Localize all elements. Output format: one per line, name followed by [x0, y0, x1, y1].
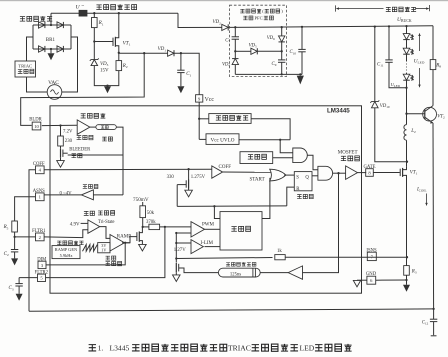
capacitor C11 [385, 59, 392, 61]
svg-text:15V: 15V [100, 69, 109, 74]
capacitor C9 [278, 59, 285, 61]
svg-text:1.: 1. [98, 344, 104, 353]
svg-text:MOSFET: MOSFET [338, 150, 358, 155]
node VT2 base tap [405, 113, 407, 115]
wire VD6 stem [281, 27, 283, 36]
ground blanking [173, 275, 181, 282]
wire ramp out to gate [125, 237, 137, 243]
wire Vcc into IC [198, 102, 200, 139]
wire DIM internal [46, 243, 125, 265]
terminal C12 [431, 335, 437, 337]
label buck-converter (Chinese) [386, 7, 391, 11]
resistor 1k [275, 255, 285, 260]
wire bridge-left to TRIAC [27, 37, 34, 61]
node PFC right top [281, 26, 283, 28]
wire rail step-down [178, 13, 222, 27]
svg-text:I-LIM: I-LIM [201, 241, 214, 246]
wire VD3 branch [93, 42, 95, 60]
wire VD4 bottom [234, 65, 236, 75]
buffer MOSFET driver [346, 166, 358, 180]
label ramp-generator (Chinese) [57, 241, 61, 245]
comparator PWM [191, 222, 205, 237]
node GND junction [405, 279, 407, 281]
node ramp out [124, 242, 126, 244]
svg-text:0 ~4V: 0 ~4V [60, 191, 73, 196]
wire top rail [51, 12, 79, 14]
wire C10 bottom [301, 52, 303, 75]
IC LM3445 boundary [50, 106, 362, 293]
wire to FLTR1 [15, 236, 36, 238]
svg-text:VD3: VD3 [100, 62, 109, 67]
svg-text:330: 330 [167, 175, 175, 180]
svg-text:VD6: VD6 [267, 36, 275, 41]
wire ASNS to buffer [44, 194, 81, 196]
wire into controller topleft [214, 206, 220, 218]
ground dim-switch [139, 244, 147, 251]
wire C1 to gnd [180, 73, 182, 87]
caption figure 1 [88, 345, 96, 351]
led LED1 [403, 34, 410, 40]
wire TRIAC to VAC [27, 77, 48, 92]
svg-text:10: 10 [34, 124, 39, 129]
svg-text:L2: L2 [410, 129, 416, 134]
PFC dashed box [230, 5, 287, 76]
transistor dim-switch [138, 231, 140, 241]
wire COFF pulldown [188, 169, 190, 179]
ground VD3/R2 [104, 86, 111, 93]
node COFF pulldown tap [187, 168, 189, 170]
wire I-LIM+ stub [176, 242, 191, 244]
svg-text:C12: C12 [422, 320, 429, 325]
wire VT2 base [407, 113, 425, 115]
node PFC right mid [281, 50, 283, 52]
svg-text:RAMP GEN: RAMP GEN [55, 247, 78, 252]
wire FLTR2 internal [46, 227, 165, 278]
svg-text:VT1: VT1 [410, 171, 418, 176]
svg-text:TRIAC: TRIAC [18, 64, 32, 69]
diode BR1-D4 [57, 46, 63, 52]
node I-LIM+ tap [175, 242, 177, 244]
label dim (Chinese) [84, 211, 89, 215]
svg-text:Vcc UVLO: Vcc UVLO [210, 137, 234, 143]
node ISNS junction [406, 256, 408, 258]
label bridge-rectifier (Chinese) [20, 17, 25, 21]
label line-voltage-sense (Chinese) [96, 5, 102, 10]
wire C1 stem [180, 53, 182, 70]
svg-text:L3445: L3445 [110, 344, 130, 353]
wire blanking gnd stub [175, 272, 177, 275]
wire control net [177, 205, 287, 208]
capacitor C10 [298, 48, 305, 50]
dim arrow U LED down [419, 68, 421, 87]
svg-text:LM3445: LM3445 [327, 108, 350, 115]
wire latch Q to AND2 [312, 175, 318, 177]
svg-text:FLTR2: FLTR2 [35, 270, 49, 275]
transistor blanking switch [175, 263, 177, 272]
wire regulator out [251, 119, 290, 140]
label thermal-shutdown (Chinese) [248, 155, 253, 159]
svg-text:Tri-State: Tri-State [98, 220, 115, 225]
pin Vcc 9 [196, 95, 203, 102]
node VT1 drain tap [118, 12, 120, 14]
svg-text:4.9V: 4.9V [70, 222, 80, 227]
block Vcc UVLO [206, 134, 239, 145]
node VT1-gate [93, 40, 95, 42]
wire ramp comp out [122, 242, 130, 244]
wire to UVLO [199, 138, 206, 140]
wire latch R in [287, 187, 295, 206]
block internal regulator [209, 114, 251, 124]
node gate-drive tap [337, 172, 339, 174]
ground bleeder [57, 161, 65, 168]
ground GND pin [353, 280, 360, 286]
ground R3 [403, 285, 410, 292]
svg-text:Vcc: Vcc [205, 97, 215, 103]
svg-text:R3: R3 [411, 269, 417, 274]
zener VD3 [91, 60, 98, 66]
node PFC left top [234, 26, 236, 28]
node control net tap [213, 205, 215, 207]
led LED3 [403, 74, 410, 80]
resistor R3 [404, 266, 410, 276]
wire OR out to latch S [284, 174, 294, 176]
wire PWM- stub [176, 232, 191, 234]
label internal-regulator (Chinese) [216, 116, 221, 120]
node bridge+ top [50, 24, 52, 26]
node C10 top [301, 26, 303, 28]
label angle-detect (Chinese) [81, 114, 86, 118]
svg-text:START: START [250, 177, 265, 182]
svg-text:50k: 50k [147, 211, 155, 216]
wire pill to bleeder gate [116, 127, 123, 195]
inductor L2 [404, 125, 407, 141]
svg-text:1V: 1V [101, 248, 106, 253]
wire main rail [228, 26, 433, 28]
wire PFC bottom [235, 73, 302, 75]
svg-text:1.275V: 1.275V [191, 175, 206, 180]
diode BR1-D3 [39, 46, 45, 52]
node VD10 join [406, 161, 408, 163]
label PFC line1 (Chinese) [240, 9, 244, 13]
transistor bleeder switch [60, 149, 62, 158]
wire VT2 emitter down [432, 123, 435, 309]
svg-text:PFC: PFC [255, 16, 263, 21]
label PFC line2 (Chinese) [243, 16, 247, 20]
wire into AND1 top [280, 140, 293, 153]
wire COFF mosfet gnd [188, 189, 190, 191]
node dots [406, 63, 407, 64]
wire to regulator [199, 118, 209, 120]
wire R2 top [118, 53, 120, 61]
svg-text:BLEEDER: BLEEDER [69, 148, 91, 153]
node Vcc split [198, 118, 200, 120]
wire R1 top [93, 13, 95, 17]
wire AND2 out [333, 172, 346, 174]
wire bleeder gnd stub [60, 158, 62, 161]
wire buffer out [100, 227, 110, 239]
wire bleeder mosfet top [60, 146, 62, 149]
ground COFF discharge [185, 190, 193, 197]
wire C11 stem [388, 26, 390, 60]
wire LED2 tail [406, 54, 408, 61]
wire VD5 right [257, 50, 281, 52]
node R1 tap [93, 12, 95, 14]
wire discharge gate net [176, 185, 178, 207]
wire driver out to GATE [358, 172, 367, 174]
wire R1 bottom [93, 28, 95, 42]
node UVLO/reg join [279, 139, 281, 141]
waveform sawtooth [83, 245, 98, 252]
label driver (Chinese) [341, 156, 346, 160]
capacitor C1 [177, 69, 184, 71]
label buffer (Chinese) [83, 185, 87, 189]
node gnd junction [106, 84, 108, 86]
wire LED3 head [406, 73, 408, 75]
label rising-edge-filter (Chinese) [226, 263, 230, 266]
wire GND to R3 node [376, 279, 408, 281]
dim arrow left tick [335, 5, 337, 11]
svg-text:VD2: VD2 [213, 20, 222, 25]
wire C3 gnd [18, 286, 20, 294]
svg-text:C11: C11 [377, 62, 384, 67]
svg-text:RAMP: RAMP [117, 235, 131, 240]
transistor VT2 [423, 107, 437, 121]
wire COFF internal [44, 168, 212, 171]
svg-text:C1: C1 [186, 72, 191, 77]
wire inverter to filter [260, 272, 288, 274]
svg-text:VT2: VT2 [437, 114, 445, 119]
wire 750mV stem [142, 202, 144, 206]
comparator angle-detect [77, 120, 90, 134]
wire sense vertical [175, 233, 177, 263]
svg-text:1k: 1k [277, 249, 282, 254]
svg-text:VD10: VD10 [380, 104, 390, 109]
svg-text:C7: C7 [225, 39, 230, 44]
wire VD1 to Vcc corner [174, 53, 199, 94]
capacitor C12 [430, 318, 437, 320]
node bleeder tap [59, 124, 61, 126]
wire LED1-2 [406, 40, 408, 48]
wire C9 bottom [281, 62, 283, 74]
node PFC bottom [281, 73, 283, 75]
svg-text:R2: R2 [122, 64, 128, 69]
label bleed (Chinese) [71, 154, 76, 158]
node PFC left mid [234, 50, 236, 52]
resistor R8 [430, 60, 436, 70]
block ramp thresholds [98, 243, 110, 253]
wire PWM out [205, 228, 221, 230]
node FLTR1 ext [13, 236, 15, 238]
block thermal shutdown [240, 152, 273, 164]
label comparator (Chinese) [77, 136, 82, 140]
wire VD5 left [235, 50, 251, 52]
buffer ASNS [81, 190, 93, 200]
wire C7 to node [234, 39, 236, 58]
wire R3 bottom [406, 275, 408, 285]
wire VAC to bridge-right [62, 37, 78, 92]
wire buffer input [93, 194, 123, 196]
ground C3 [16, 294, 23, 301]
wire LED3 tail [406, 80, 408, 87]
node C1 tap [180, 52, 182, 54]
node sense tap [175, 257, 177, 259]
wire C10 stem [301, 27, 303, 50]
wire VD6 to C9 [281, 42, 283, 60]
wire C2 gnd [14, 252, 16, 259]
wire gate feedback [303, 173, 339, 272]
wire bleeder sense (long) [21, 53, 145, 125]
wire ISNS sense [176, 258, 272, 259]
comparator I-LIM [191, 240, 203, 254]
wire bleeder res [60, 126, 62, 137]
svg-text:VD1: VD1 [158, 47, 167, 52]
block controller [220, 212, 262, 250]
gate AND2 [318, 166, 333, 180]
svg-text:VD5: VD5 [249, 44, 257, 49]
wire thermal to AND1 [273, 157, 293, 159]
node FLTR2 tap [164, 226, 166, 228]
svg-text:PWM: PWM [202, 222, 215, 227]
svg-text:125ns: 125ns [230, 272, 241, 277]
wire R2 bottom [108, 71, 119, 86]
node bridge- bottom [50, 48, 52, 50]
label latch (Chinese) [297, 195, 302, 199]
diode VD2 [222, 24, 228, 30]
svg-text:1.27V: 1.27V [174, 248, 186, 253]
wire C3 stem [18, 278, 20, 284]
svg-text:C10: C10 [290, 50, 297, 55]
wire LED stem [406, 26, 408, 33]
wire VD3 to gnd [94, 66, 107, 86]
ground PFC [297, 76, 304, 85]
wire C7 stem [234, 27, 236, 37]
svg-text:~: ~ [82, 4, 85, 9]
node LED rail tap [405, 25, 407, 27]
zener VD10 [372, 102, 379, 108]
wire C12 tail [433, 322, 435, 336]
svg-text:C9: C9 [272, 62, 277, 67]
wire bridge- stub [50, 49, 52, 53]
label hysteresis (Chinese) [102, 137, 107, 141]
wire 50k bottom [142, 218, 144, 227]
svg-text:R5: R5 [3, 225, 9, 230]
wire to 370k [143, 226, 149, 228]
wire bottom rail [29, 309, 434, 311]
wire VT1 gate [94, 41, 112, 43]
label controller (Chinese) [231, 227, 237, 232]
wire GATE to VT1 [373, 172, 400, 174]
transistor COFF discharge [188, 180, 190, 189]
wire rail corner down [432, 26, 434, 60]
diode VD5 [251, 48, 257, 54]
dim arrow U LED up [419, 33, 421, 51]
ground C1 [177, 86, 184, 93]
dim arrow left [336, 8, 383, 10]
dim arrow right tick [429, 5, 431, 11]
label ramp-comparator (Chinese) [105, 256, 110, 260]
transistor VT1 switch [402, 168, 404, 177]
wire OR lower input [262, 178, 270, 219]
source VAC [47, 85, 62, 100]
wire GND left stub [357, 279, 367, 281]
svg-text:COFF: COFF [219, 165, 232, 170]
label decoder (Chinese) [98, 211, 103, 215]
resistor 50k [140, 206, 146, 218]
svg-text:BR1: BR1 [46, 38, 56, 43]
svg-text:230: 230 [65, 139, 73, 144]
comparator RAMP [110, 235, 125, 252]
arrow I COIL [426, 194, 428, 206]
TRIAC dimmer box [15, 61, 36, 77]
wire FLTR1 to buffer [44, 230, 88, 238]
node ramp node [142, 226, 144, 228]
wire comp to pill [90, 126, 96, 128]
wire 4.9V stub [81, 222, 88, 224]
node PFC gnd [299, 73, 301, 75]
wire BLDR to comparator [42, 124, 77, 126]
resistor R5 [12, 221, 18, 232]
wire C12 stem [433, 309, 435, 319]
svg-text:C3: C3 [9, 286, 14, 291]
diode VD4 [232, 59, 238, 65]
node C11 rail tap [388, 25, 390, 27]
svg-text:750mV: 750mV [133, 197, 149, 203]
block RAMP GEN [52, 246, 80, 259]
wire ASNS external [15, 197, 36, 221]
svg-text:Q: Q [305, 175, 309, 180]
wire L2 to VT1 [406, 140, 408, 166]
block hysteresis pill [96, 125, 116, 130]
node VT1 source [118, 52, 120, 54]
wire LED- to L2 [406, 88, 408, 125]
capacitor C7 [232, 36, 239, 38]
wire COFF out to OR [223, 171, 271, 173]
svg-text:ICOIL: ICOIL [416, 187, 427, 192]
led LED2 [403, 48, 410, 54]
ground below bridge [48, 53, 55, 60]
wire 370k to PWM+ [160, 226, 191, 228]
node bottom rail junction [432, 308, 434, 310]
resistor 370k [149, 224, 160, 229]
resistor bleeder 230 [58, 136, 64, 146]
block rising-edge filter [218, 268, 260, 277]
inverter edge filter [288, 266, 302, 279]
wire R8 to VT2 [432, 70, 434, 106]
ground C2 [11, 258, 18, 265]
buffer Tri-State [88, 220, 100, 233]
bridge rectifier BR1 outline [33, 24, 71, 26]
node PWM- tap [175, 232, 177, 234]
diode VD1 [168, 50, 174, 56]
fuse/filter block (filled) [79, 10, 87, 16]
svg-text:LED: LED [300, 344, 315, 353]
svg-text:7.2V: 7.2V [63, 129, 73, 134]
wire bridge+ riser [50, 13, 52, 25]
wire C11 bottom [389, 62, 407, 88]
wire FLTR2 external [19, 277, 37, 279]
node VD10 rail tap [374, 25, 376, 27]
wire VD10 branch [374, 27, 376, 102]
capacitor C3 [15, 283, 22, 285]
diode BR1-D1 [39, 22, 45, 28]
gate AND1 [293, 148, 308, 163]
wire UVLO out [239, 139, 290, 141]
svg-text:TRIAC: TRIAC [228, 344, 251, 353]
resistor R1 [92, 18, 98, 28]
wire top rail 2 [87, 12, 178, 14]
dim arrow right [415, 8, 429, 10]
transistor VT1 (line bleeder) [114, 37, 116, 47]
